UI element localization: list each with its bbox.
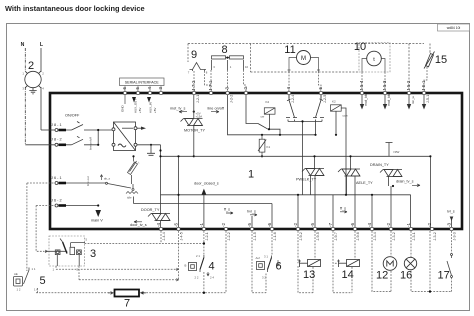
svg-text:J-3-1: J-3-1 [412, 232, 416, 240]
svg-text:+5V: +5V [138, 108, 142, 113]
svg-text:K2: K2 [332, 100, 336, 104]
svg-text:ff_s: ff_s [340, 207, 346, 211]
svg-text:main V: main V [91, 219, 103, 223]
svg-text:mot_ktv: mot_ktv [387, 93, 391, 106]
svg-text:ab_s: ab_s [104, 177, 111, 181]
svg-text:3 1: 3 1 [264, 255, 268, 259]
svg-text:-3: -3 [447, 222, 452, 227]
svg-text:4: 4 [209, 261, 215, 273]
svg-text:8: 8 [221, 44, 227, 56]
svg-text:-5: -5 [318, 86, 323, 91]
svg-text:-4: -4 [147, 86, 152, 91]
svg-text:J-3-3: J-3-3 [453, 232, 457, 240]
svg-text:DOOR_TY: DOOR_TY [141, 208, 160, 212]
svg-text:-4: -4 [286, 86, 291, 91]
svg-text:12: 12 [376, 270, 388, 282]
svg-text:J-2-5: J-2-5 [323, 95, 327, 103]
svg-text:-2: -2 [243, 86, 248, 91]
svg-text:MOTOR_TY: MOTOR_TY [184, 129, 205, 133]
svg-text:-4: -4 [156, 222, 161, 227]
svg-text:-6: -6 [267, 222, 272, 227]
svg-text:-1: -1 [406, 222, 411, 227]
svg-text:1 2: 1 2 [17, 288, 21, 292]
svg-text:ff_s: ff_s [224, 208, 230, 212]
svg-text:-3: -3 [225, 86, 230, 91]
svg-text:J-4-4: J-4-4 [162, 232, 166, 240]
svg-text:-5: -5 [310, 222, 315, 227]
svg-text:-1: -1 [199, 222, 204, 227]
svg-text:-2: -2 [427, 222, 432, 227]
svg-text:-2: -2 [386, 222, 391, 227]
svg-text:3: 3 [90, 248, 96, 260]
svg-text:3 2: 3 2 [262, 276, 266, 280]
svg-text:hvl_s: hvl_s [247, 210, 256, 214]
svg-text:-5: -5 [174, 222, 179, 227]
svg-text:J 8 - 2: J 8 - 2 [51, 138, 62, 142]
svg-text:-6: -6 [122, 86, 127, 91]
svg-text:J 6 - 1: J 6 - 1 [51, 176, 62, 180]
svg-text:-6: -6 [350, 222, 355, 227]
svg-text:J-5-4: J-5-4 [359, 80, 364, 91]
svg-text:1: 1 [248, 169, 254, 181]
svg-text:1 1: 1 1 [32, 267, 36, 271]
svg-text:J-4-5: J-4-5 [180, 232, 184, 240]
svg-text:ccw: ccw [343, 114, 349, 118]
svg-text:J-3-2: J-3-2 [392, 232, 396, 240]
svg-text:J 6 - 2: J 6 - 2 [51, 199, 62, 203]
svg-text:J 8 - 1: J 8 - 1 [51, 123, 62, 127]
svg-text:-3: -3 [158, 86, 163, 91]
svg-text:J-2-2: J-2-2 [230, 95, 234, 103]
svg-text:line on/off: line on/off [89, 137, 93, 150]
svg-text:door_tv_s: door_tv_s [130, 223, 147, 227]
svg-text:+15A: +15A [196, 115, 203, 119]
svg-text:J-9-7: J-9-7 [334, 232, 338, 240]
svg-text:M: M [301, 56, 306, 62]
svg-text:J-7-2: J-7-2 [191, 80, 196, 91]
svg-text:tdle: tdle [127, 196, 132, 200]
svg-text:J-5-2: J-5-2 [406, 80, 411, 91]
svg-text:J-2-1: J-2-1 [205, 232, 209, 240]
svg-text:2 2: 2 2 [195, 276, 199, 280]
svg-text:6: 6 [276, 261, 282, 273]
svg-text:9: 9 [191, 49, 197, 61]
svg-text:DRAIN_TY: DRAIN_TY [370, 163, 389, 167]
svg-text:J-1-6: J-1-6 [273, 232, 277, 240]
svg-text:2: 2 [28, 60, 34, 72]
svg-text:mot_tv_s: mot_tv_s [170, 107, 186, 111]
svg-text:16: 16 [400, 270, 412, 282]
svg-text:J-2-2: J-2-2 [227, 232, 231, 240]
svg-text:-7: -7 [328, 222, 333, 227]
svg-text:11: 11 [284, 44, 295, 56]
svg-text:lvl_s: lvl_s [447, 210, 455, 214]
svg-text:10: 10 [245, 65, 249, 69]
svg-text:-2: -2 [221, 222, 226, 227]
svg-text:ntc_w: ntc_w [411, 95, 415, 104]
svg-text:J-3-2: J-3-2 [433, 232, 437, 240]
svg-text:PWELK_TY: PWELK_TY [296, 178, 317, 182]
svg-text:7: 7 [124, 298, 130, 310]
svg-text:K1: K1 [267, 145, 271, 149]
svg-text:line out: line out [86, 176, 90, 186]
svg-text:B: B [185, 264, 187, 268]
svg-text:J-5-3: J-5-3 [382, 80, 387, 91]
svg-text:AELE_TY: AELE_TY [356, 181, 373, 185]
svg-text:13: 13 [303, 269, 315, 281]
svg-text:ON/OFF: ON/OFF [65, 114, 80, 118]
svg-text:2 1: 2 1 [196, 254, 200, 258]
svg-text:-4: -4 [367, 222, 372, 227]
svg-text:+5V: +5V [153, 108, 157, 113]
svg-text:AE: AE [14, 272, 18, 276]
svg-text:drain_tv_s: drain_tv_s [396, 180, 414, 184]
svg-text:J-1-5: J-1-5 [253, 232, 257, 240]
svg-text:J-3-4: J-3-4 [373, 232, 377, 240]
svg-text:door_closed_s: door_closed_s [194, 182, 219, 186]
svg-text:J-9-5: J-9-5 [316, 232, 320, 240]
svg-text:J-9-2: J-9-2 [299, 232, 303, 240]
svg-text:wd84 10i: wd84 10i [447, 26, 461, 30]
svg-text:15: 15 [435, 54, 447, 66]
svg-text:2 4: 2 4 [210, 276, 214, 280]
svg-text:J-5-1: J-5-1 [426, 95, 430, 103]
svg-text:SERIAL INTERFACE: SERIAL INTERFACE [125, 80, 159, 84]
svg-text:J-2-1: J-2-1 [196, 95, 200, 103]
svg-text:J-2-4: J-2-4 [291, 95, 295, 103]
svg-text:-2: -2 [293, 222, 298, 227]
svg-text:-5: -5 [247, 222, 252, 227]
svg-text:J-7-1: J-7-1 [208, 80, 213, 91]
svg-text:17: 17 [438, 270, 450, 282]
svg-text:mot_ktv: mot_ktv [364, 93, 368, 106]
svg-text:J-5-1: J-5-1 [421, 80, 426, 91]
svg-text:-5: -5 [135, 86, 140, 91]
svg-text:J-9-6: J-9-6 [356, 232, 360, 240]
svg-text:With instantaneous door lockin: With instantaneous door locking device [5, 4, 145, 13]
svg-text:K2: K2 [266, 100, 270, 104]
svg-text:line on/off: line on/off [208, 107, 225, 111]
svg-text:NfW: NfW [394, 150, 400, 154]
svg-text:5: 5 [40, 275, 46, 287]
svg-text:Auf: Auf [256, 256, 260, 260]
svg-text:GND: GND [121, 105, 125, 113]
svg-text:N: N [21, 42, 25, 48]
svg-text:14: 14 [342, 269, 354, 281]
